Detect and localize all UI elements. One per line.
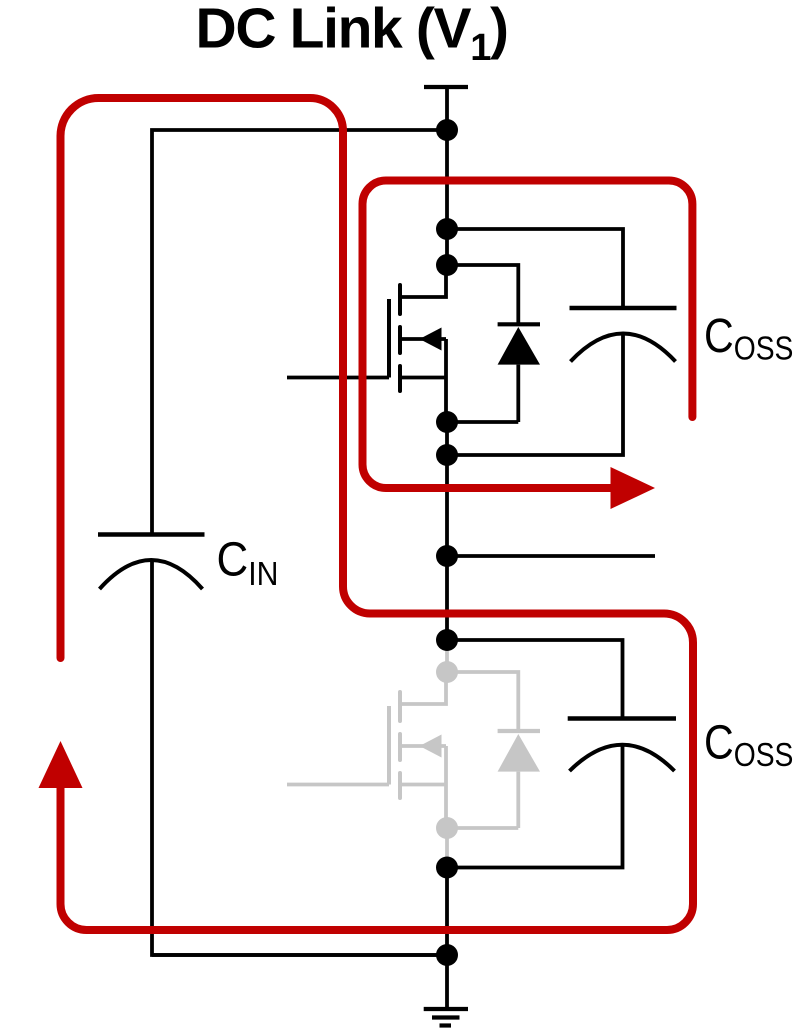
wire Coss1 bottom lead — [447, 334, 623, 456]
transistor Q1 body arrow — [420, 328, 442, 351]
wire Q1 drain lead — [400, 265, 446, 297]
ground symbol — [424, 1009, 468, 1026]
wire switch node stub — [447, 554, 655, 558]
wire Q1 source lead to rail — [444, 339, 448, 422]
wire rail gray segment node SW to Q2 drain — [445, 640, 449, 672]
wire DC link rail top — [445, 87, 449, 267]
node bottom junction with C_IN return — [436, 944, 458, 966]
wire Q2 drain lead — [400, 672, 446, 704]
wire red loop A arrowhead — [611, 467, 656, 509]
wire C_IN return junction to rail — [152, 953, 447, 957]
svg-text:DC Link (V1): DC Link (V1) — [196, 0, 508, 69]
wire D1 anode lead — [516, 365, 520, 422]
capacitor Coss2 top plate — [568, 716, 676, 720]
node Coss1 top junction — [436, 218, 458, 240]
node Coss2 top junction — [436, 629, 458, 651]
capacitor C_IN top plate — [98, 532, 205, 536]
wire rail gray segment Q2 source to ground net — [445, 828, 449, 868]
wire Q2 gate lead — [287, 783, 389, 787]
wire rail mid section — [445, 422, 449, 645]
wire Q2 source bar — [400, 783, 446, 787]
wire Coss2 top branch — [447, 640, 623, 719]
wire red loop B arrowhead — [39, 741, 83, 788]
transistor Q2 channel segments — [398, 692, 402, 798]
node switch node — [436, 545, 458, 567]
wire Q2 body connection — [401, 744, 446, 748]
wire D1 cathode branch — [447, 265, 518, 324]
capacitor C_IN curved plate — [100, 560, 203, 589]
wire rail bottom section — [445, 868, 449, 1010]
wire D2 cathode branch — [447, 672, 518, 731]
wire Q2 source lead to rail — [444, 746, 448, 828]
wire D1 anode to rail — [447, 420, 518, 424]
capacitor Coss2 curved plate — [570, 745, 675, 771]
diode D2 body diode of Q2 — [498, 729, 540, 733]
diode D1 body diode of Q1 — [498, 322, 540, 326]
node Q1 source junction — [436, 411, 458, 433]
transistor Q2 gate plate — [387, 706, 391, 785]
wire Coss2 bottom lead — [447, 745, 623, 868]
node Coss1 bottom junction — [436, 444, 458, 466]
wire Q1 gate lead — [287, 376, 389, 380]
transistor Q1 gate plate — [387, 299, 391, 378]
wire red loop A high-side commutation loop — [363, 181, 693, 489]
node Q2 source junction (gray) — [436, 817, 458, 839]
label C_IN — [217, 532, 279, 593]
wire red loop B outer commutation loop — [61, 98, 694, 930]
wire Q1 source bar — [400, 376, 446, 380]
label C_OSS lower — [704, 717, 793, 774]
wire Coss1 top branch — [447, 229, 623, 308]
wire D2 anode to rail — [447, 826, 518, 830]
label C_OSS upper — [704, 310, 793, 367]
node Q2 drain junction (gray) — [436, 661, 458, 683]
supply bar DC link — [424, 85, 468, 89]
wire Q1 body connection — [401, 337, 446, 341]
wire C_IN bottom lead — [152, 560, 447, 955]
node Coss2 bottom junction — [436, 857, 458, 879]
transistor Q1 channel segments — [398, 285, 402, 391]
node top junction with C_IN — [436, 119, 458, 141]
capacitor Coss1 curved plate — [571, 334, 676, 362]
wire C_IN top branch — [152, 130, 447, 535]
capacitor Coss1 top plate — [570, 306, 677, 310]
transistor Q2 body arrow — [420, 735, 442, 758]
wire D2 anode lead — [516, 772, 520, 828]
node Q1 drain junction — [436, 254, 458, 276]
